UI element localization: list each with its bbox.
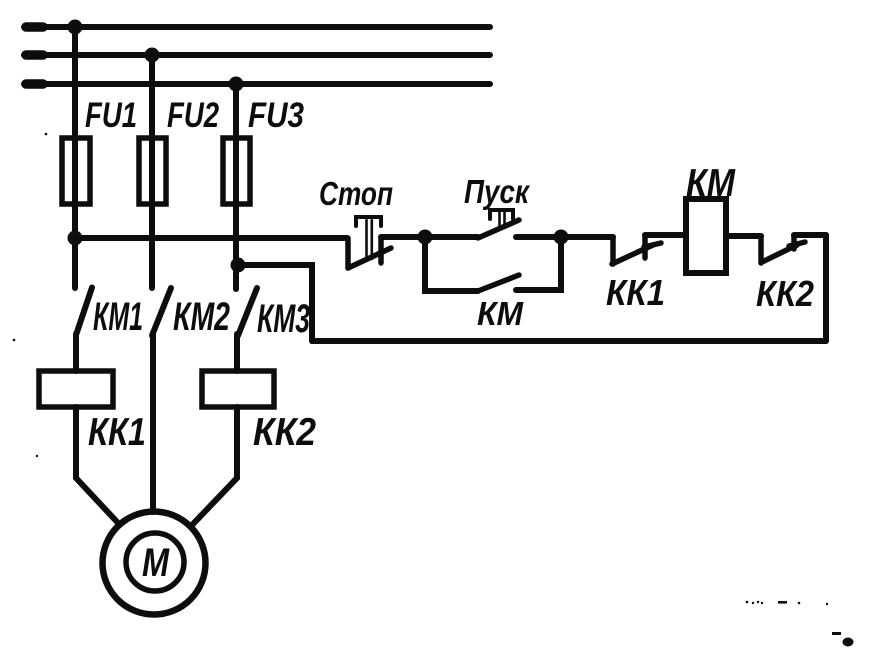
pushbutton Pusk plunger cap <box>490 210 513 219</box>
pushbutton Stop NC blade <box>348 248 391 268</box>
node junction dot L1/FU1 <box>68 20 83 35</box>
node junction dot L2/FU2 <box>145 48 160 63</box>
svg-text:КМ: КМ <box>686 162 736 205</box>
contact KK1 left stub <box>610 237 616 264</box>
contact KM1 blade <box>76 288 92 336</box>
pushbutton Stop plunger stem <box>365 220 368 259</box>
contact KM auxiliary blade <box>478 275 519 291</box>
node junction dot bus/FU1 <box>68 231 83 246</box>
wire drop from L3 through FU3 <box>233 84 239 289</box>
svg-text:М: М <box>142 541 170 585</box>
wire Stop to Pusk node <box>381 234 425 240</box>
node junction dot left of Pusk <box>418 230 433 245</box>
wire right edge down <box>823 235 829 341</box>
thermal heater KK1 <box>39 371 113 407</box>
wire bottom return <box>312 338 826 344</box>
coil KM <box>686 199 726 273</box>
pushbutton Pusk plunger stem <box>498 212 501 228</box>
contact KK2 right stub <box>791 235 797 249</box>
svg-text:КМ1: КМ1 <box>93 295 143 339</box>
contact KK2 left stub <box>758 236 764 263</box>
contact KM2 blade <box>152 288 171 336</box>
wire KM3 to KK2 heater <box>234 334 240 371</box>
wire drop from L1 through FU1 <box>72 27 78 288</box>
wire drop from L2 through FU2 <box>149 55 155 288</box>
speckle noise dots <box>13 133 854 647</box>
svg-text:КК2: КК2 <box>756 273 814 314</box>
wire KK2 to right edge <box>794 232 826 238</box>
wire KK2 to motor <box>193 407 237 524</box>
contact KK1 tick <box>644 243 661 247</box>
wire KK1 to coil KM <box>645 232 686 238</box>
wire KM1 to KK1 heater <box>73 334 79 371</box>
wire KK1 to motor <box>76 407 119 524</box>
svg-text:КМ2: КМ2 <box>173 295 230 339</box>
wire phase line L3 <box>24 81 490 87</box>
pushbutton Pusk NO blade <box>478 220 519 238</box>
fuse FU1 <box>62 138 90 204</box>
motor M inner circle <box>126 533 184 591</box>
svg-text:КМ: КМ <box>477 295 524 332</box>
wire control bus from FU1 to Stop button <box>75 235 347 241</box>
wire Pusk left terminal <box>425 234 478 240</box>
svg-text:FU2: FU2 <box>167 96 219 135</box>
svg-text:FU3: FU3 <box>248 96 304 135</box>
wire Pusk right terminal <box>516 234 561 240</box>
svg-text:Пуск: Пуск <box>464 173 531 210</box>
wire KM aux branch right leg <box>516 237 561 290</box>
wire KM aux branch left leg <box>425 237 478 291</box>
wire coil to KK2 contact <box>726 233 761 239</box>
node junction dot FU3 branch <box>231 258 246 273</box>
wire phase line L1 <box>24 24 490 30</box>
node junction dot right of Pusk <box>554 230 569 245</box>
contact KK1 right stub <box>642 235 648 258</box>
contact KK1 blade <box>612 245 653 264</box>
svg-text:Стоп: Стоп <box>319 175 393 212</box>
node junction dot L3/FU3 <box>229 77 244 92</box>
thermal heater KK2 <box>202 371 274 407</box>
fuse FU3 <box>223 138 250 204</box>
svg-text:КК1: КК1 <box>606 272 665 313</box>
wire branch from FU3 down-right to control return <box>238 265 312 341</box>
pushbutton Stop plunger cap <box>356 217 381 226</box>
svg-text:КМ3: КМ3 <box>257 297 310 341</box>
svg-text:КК2: КК2 <box>253 411 316 454</box>
wire KM2 to motor <box>150 334 156 512</box>
contact KK2 blade <box>762 245 797 262</box>
svg-text:FU1: FU1 <box>85 96 137 135</box>
motor M outer circle <box>103 512 206 615</box>
wire Pusk to KK1 contact <box>561 234 613 240</box>
pushbutton Stop NC left stub <box>345 238 351 268</box>
wire phase line L2 <box>24 52 490 58</box>
svg-text:КК1: КК1 <box>88 411 146 454</box>
pushbutton Stop NC right stub <box>378 237 384 263</box>
fuse FU2 <box>139 138 166 204</box>
contact KM3 blade <box>238 288 257 336</box>
contact KK2 tick <box>789 242 805 246</box>
